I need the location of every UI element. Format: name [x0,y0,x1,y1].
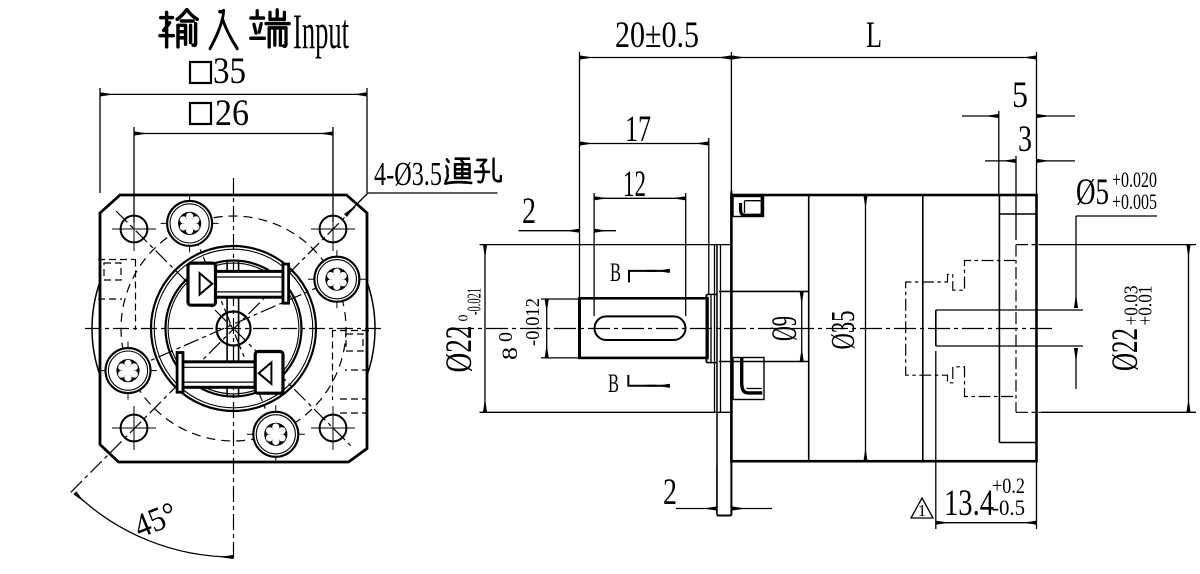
svg-text:Ø22: Ø22 [439,326,480,373]
svg-text:-0.5: -0.5 [992,495,1025,520]
svg-text:Ø35: Ø35 [825,311,862,350]
svg-text:26: 26 [215,93,249,134]
svg-text:-0.012: -0.012 [522,298,544,346]
svg-text:Ø5: Ø5 [1076,172,1109,213]
svg-text:L: L [866,15,882,56]
svg-text:2: 2 [522,191,536,232]
svg-text:4-Ø3.5: 4-Ø3.5 [374,156,442,193]
svg-text:13.4: 13.4 [944,483,994,524]
svg-text:0: 0 [495,332,517,342]
svg-text:Ø22: Ø22 [1105,328,1146,371]
svg-text:17: 17 [625,109,651,150]
svg-text:1: 1 [918,501,927,520]
svg-text:2: 2 [663,472,677,513]
svg-text:5: 5 [1012,75,1028,116]
svg-text:3: 3 [1018,119,1032,160]
svg-text:B: B [610,258,621,287]
svg-text:20±0.5: 20±0.5 [615,15,699,56]
svg-text:8: 8 [497,347,522,360]
svg-text:Input: Input [293,3,349,59]
svg-text:-0.021: -0.021 [464,288,486,315]
svg-text:+0.005: +0.005 [1112,189,1157,214]
svg-text:35: 35 [213,51,246,92]
svg-text:B: B [608,369,619,398]
svg-text:+0.01: +0.01 [1135,286,1157,326]
svg-text:Ø9: Ø9 [764,316,804,341]
svg-text:12: 12 [623,164,646,205]
